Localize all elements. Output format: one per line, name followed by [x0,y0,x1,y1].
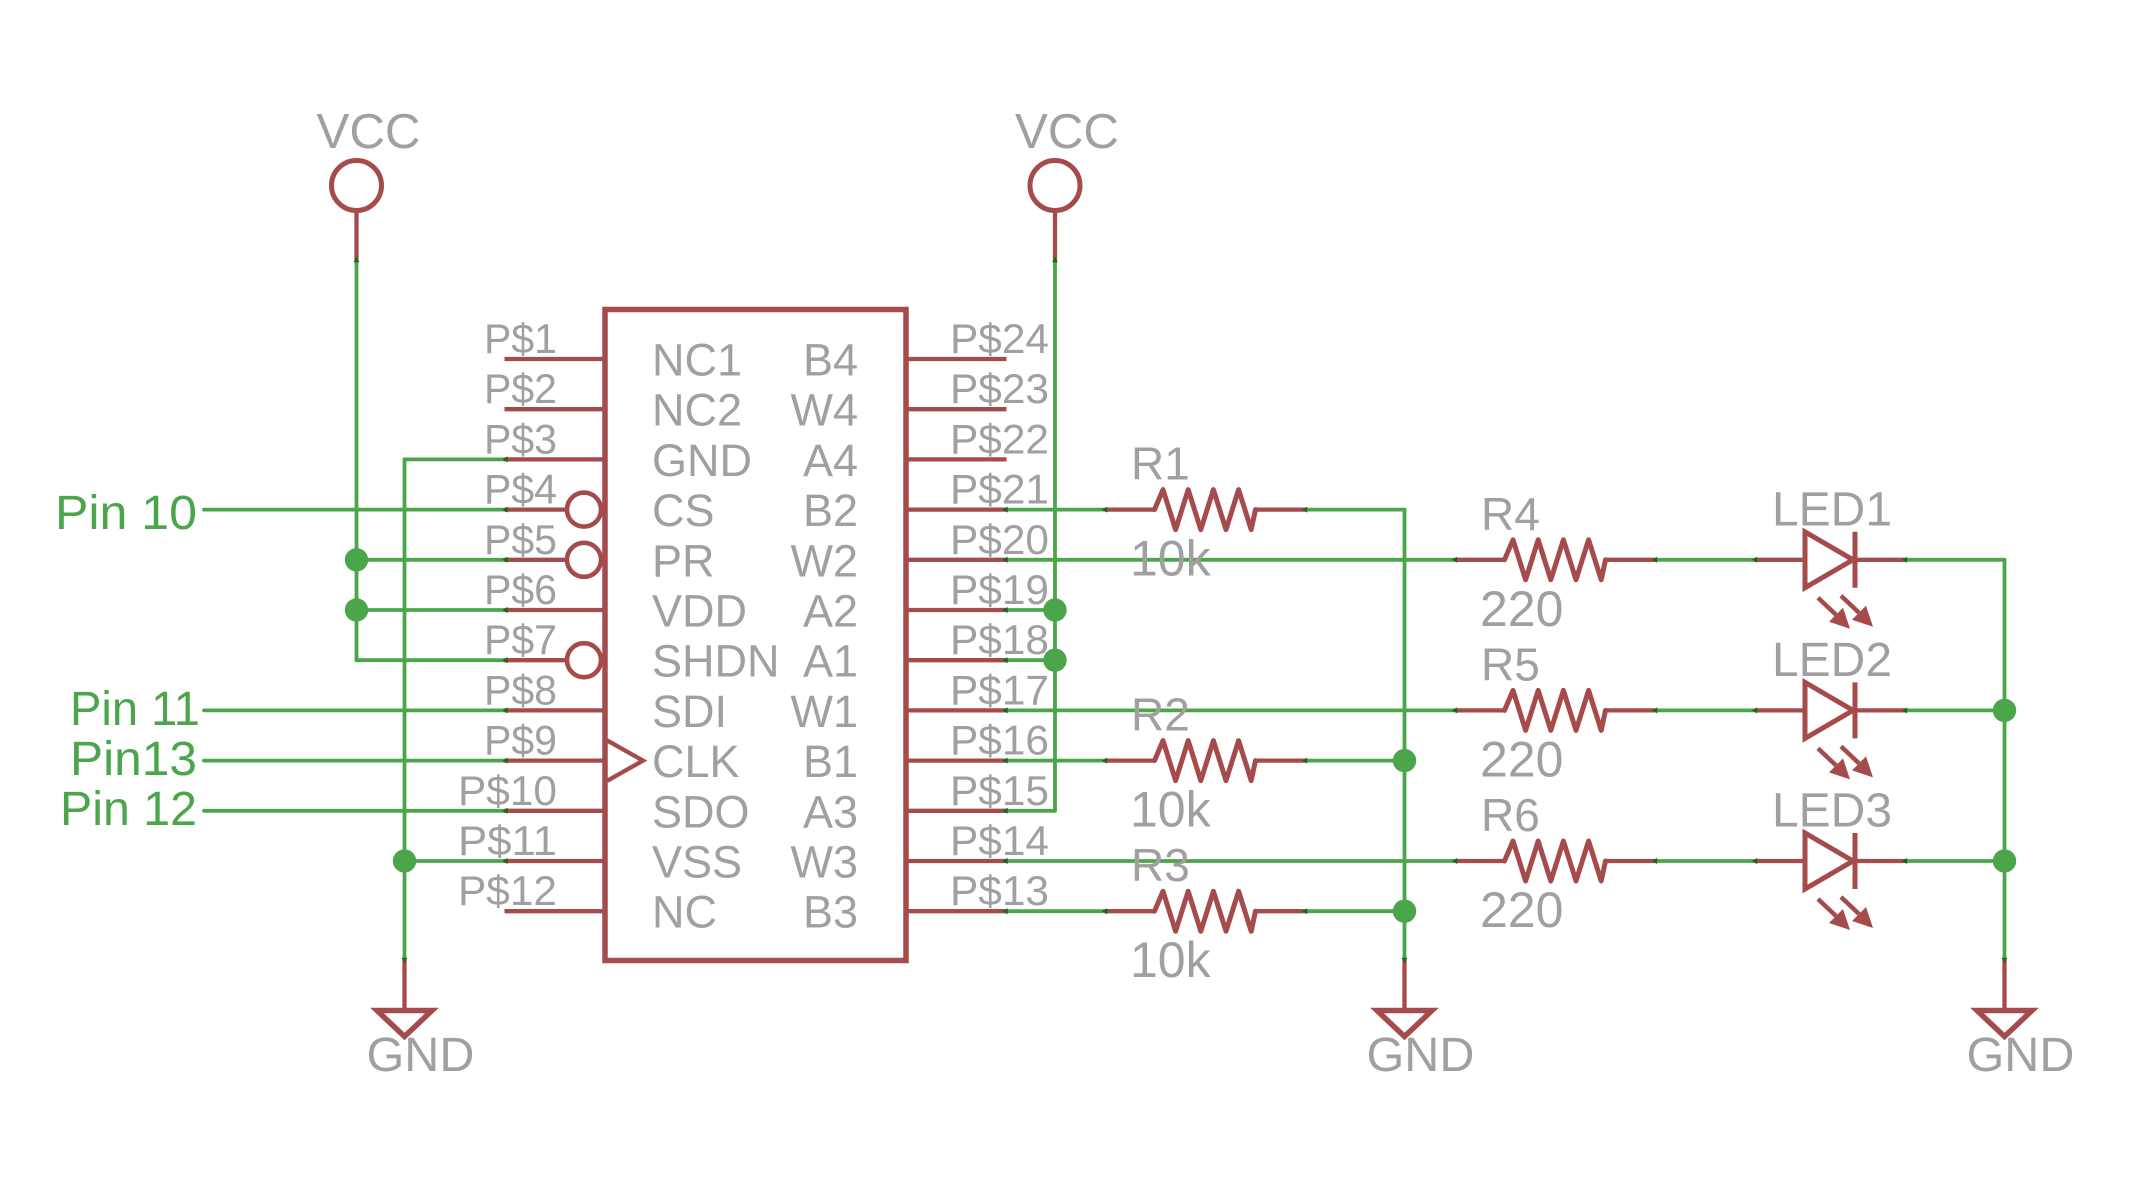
svg-text:Pin13: Pin13 [70,733,197,786]
svg-text:B4: B4 [803,335,858,386]
svg-text:GND: GND [367,1029,475,1082]
svg-text:SDI: SDI [652,686,727,737]
pin P$8 (SDI) with label [484,666,605,713]
svg-text:Pin 12: Pin 12 [60,783,197,836]
svg-text:220: 220 [1480,882,1563,938]
svg-text:P$3: P$3 [484,415,557,462]
junction right vertical at LED3 [1993,849,2016,872]
resistor R5 220 [1455,638,1655,787]
pin P$17 (W1) with label [906,666,1049,713]
junction on GND at VSS [393,849,416,872]
wire W1 to R5 [1007,709,1456,713]
pin P$5 (PR) with label [484,516,601,577]
svg-text:GND: GND [1367,1029,1475,1082]
pin P$21 (B2) with label [906,466,1049,513]
svg-text:P$19: P$19 [950,566,1049,613]
svg-text:LED2: LED2 [1772,634,1892,687]
svg-text:P$7: P$7 [484,616,557,663]
pin P$15 (A3) with label [906,767,1049,814]
svg-text:LED1: LED1 [1772,483,1892,536]
wire VCC left vertical [355,260,359,660]
svg-text:P$16: P$16 [950,717,1049,764]
svg-text:VCC: VCC [317,105,421,159]
svg-text:10k: 10k [1130,531,1212,587]
svg-text:P$5: P$5 [484,516,557,563]
svg-text:A1: A1 [803,636,858,687]
ground symbol GND (middle) [1367,960,1475,1082]
resistor R6 220 [1455,789,1655,938]
pin P$16 (B1) with label [906,717,1049,764]
junction on VCC at A2 [1043,598,1066,621]
junction on VCC at VDD [345,598,368,621]
wire GND mid vertical [1403,510,1407,960]
pin P$4 (CS) with label [484,466,601,527]
junction on VCC at PR [345,548,368,571]
svg-text:GND: GND [652,435,752,486]
pin P$18 (A1) with label [906,616,1049,663]
svg-text:LED3: LED3 [1772,785,1892,838]
svg-text:Pin 10: Pin 10 [55,487,197,540]
junction mid vertical at R3 [1393,900,1416,923]
svg-text:SHDN: SHDN [652,636,780,687]
resistor R1 10k [1105,438,1305,587]
svg-text:A3: A3 [803,786,858,837]
svg-text:10k: 10k [1130,932,1212,988]
svg-text:R1: R1 [1131,438,1190,490]
resistor R3 10k [1105,839,1305,988]
wire VCC to VDD pin [357,608,505,612]
pin P$14 (W3) with label [906,817,1049,864]
svg-text:B1: B1 [803,736,858,787]
pin P$24 (B4) with label [906,315,1049,362]
wire LED2 to right vertical [1905,709,2005,713]
wire GND left vertical [403,459,407,960]
pin P$7 (SHDN) with label [484,616,601,677]
svg-text:A2: A2 [803,586,858,637]
svg-text:B2: B2 [803,485,858,536]
IC U1 pin names [652,335,858,938]
net label Pin 12 [60,783,197,836]
svg-text:P$4: P$4 [484,466,557,513]
svg-text:R6: R6 [1481,789,1540,841]
wire VCC to A2 pin [1007,608,1056,612]
wire GND pin to left vertical [405,457,505,461]
svg-text:PR: PR [652,535,715,586]
svg-text:P$22: P$22 [950,415,1049,462]
svg-text:R5: R5 [1481,638,1540,690]
pin P$2 (NC2) with label [484,365,605,412]
IC U1 body (digital potentiometer) [605,310,906,961]
wire R4 to LED1 [1655,558,1755,562]
net label Pin 11 [70,683,200,736]
svg-text:W1: W1 [791,686,859,737]
power symbol VCC (left) [317,105,421,260]
svg-text:P$17: P$17 [950,666,1049,713]
diode LED2 [1755,634,1905,780]
wire R5 to LED2 [1655,709,1755,713]
wire R6 to LED3 [1655,859,1755,863]
wire R1 to mid vertical [1305,508,1405,512]
wire R3 to mid vertical [1305,909,1405,913]
pin P$19 (A2) with label [906,566,1049,613]
svg-text:CLK: CLK [652,736,740,787]
diode LED1 [1755,483,1905,629]
pin P$11 (VSS) with label [458,817,605,864]
net label Pin13 [70,733,197,786]
pin P$6 (VDD) with label [484,566,605,613]
wire VCC to PR pin [357,558,505,562]
wire B1 to R2 [1007,759,1106,763]
junction right vertical at LED2 [1993,699,2016,722]
svg-text:R2: R2 [1131,689,1190,741]
pin P$1 (NC1) with label [484,315,605,362]
svg-text:VDD: VDD [652,586,747,637]
svg-text:Pin 11: Pin 11 [70,683,200,736]
svg-text:W3: W3 [791,837,859,888]
svg-text:P$6: P$6 [484,566,557,613]
svg-text:P$21: P$21 [950,466,1049,513]
svg-text:220: 220 [1480,581,1563,637]
ground symbol GND (left) [367,960,475,1082]
pin P$23 (W4) with label [906,365,1049,412]
svg-text:P$13: P$13 [950,867,1049,914]
svg-text:P$20: P$20 [950,516,1049,563]
svg-text:GND: GND [1967,1029,2075,1082]
svg-text:NC2: NC2 [652,385,742,436]
pin connection markers [354,257,2008,964]
svg-text:P$2: P$2 [484,365,557,412]
svg-text:W4: W4 [791,385,859,436]
junction mid vertical at R2 [1393,749,1416,772]
svg-text:P$10: P$10 [458,767,557,814]
svg-text:10k: 10k [1130,782,1212,838]
wire LED1 to right vertical [1905,558,2005,562]
pin P$10 (SDO) with label [458,767,605,814]
svg-text:P$15: P$15 [950,767,1049,814]
wire Pin 12 to SDO [204,809,505,813]
svg-text:W2: W2 [791,535,859,586]
pin P$12 (NC) with label [458,867,605,914]
svg-text:NC: NC [652,887,717,938]
svg-text:VSS: VSS [652,837,742,888]
diode LED3 [1755,785,1905,931]
svg-text:B3: B3 [803,887,858,938]
net label Pin 10 [55,487,197,540]
svg-text:P$8: P$8 [484,666,557,713]
svg-text:VCC: VCC [1015,105,1119,159]
svg-text:P$18: P$18 [950,616,1049,663]
svg-text:P$12: P$12 [458,867,557,914]
wire VCC to SHDN pin [357,658,505,662]
wire VCC to A1 pin [1007,658,1056,662]
svg-text:P$23: P$23 [950,365,1049,412]
resistor R2 10k [1105,689,1305,838]
svg-text:P$9: P$9 [484,717,557,764]
svg-text:NC1: NC1 [652,335,742,386]
power symbol VCC (right) [1015,105,1119,260]
svg-text:SDO: SDO [652,786,750,837]
wire VCC to A3 pin [1007,809,1056,813]
ground symbol GND (right) [1967,960,2075,1082]
pin P$13 (B3) with label [906,867,1049,914]
wire Pin13 to CLK [204,759,505,763]
wire R2 to mid vertical [1305,759,1405,763]
svg-text:A4: A4 [803,435,858,486]
wire VSS to GND vertical [405,859,505,863]
junction on VCC at A1 [1043,649,1066,672]
wire W2 to R4 [1007,558,1456,562]
pin P$9 (CLK) with label [484,717,643,781]
pin P$3 (GND) with label [484,415,605,462]
wire Pin 11 to SDI [204,709,505,713]
wire B3 to R3 [1007,909,1106,913]
wire B2 to R1 [1007,508,1106,512]
pin P$20 (W2) with label [906,516,1049,563]
wire VCC right vertical [1053,260,1057,811]
wire Pin 10 to CS [204,508,505,512]
resistor R4 220 [1455,488,1655,637]
svg-text:R4: R4 [1481,488,1540,540]
wire GND right vertical [2003,560,2007,960]
svg-text:P$24: P$24 [950,315,1049,362]
svg-text:P$14: P$14 [950,817,1049,864]
svg-text:P$1: P$1 [484,315,557,362]
svg-text:R3: R3 [1131,839,1190,891]
svg-text:CS: CS [652,485,715,536]
wire W3 to R6 [1007,859,1456,863]
svg-text:220: 220 [1480,731,1563,787]
svg-text:P$11: P$11 [458,817,557,864]
wire LED3 to right vertical [1905,859,2005,863]
pin P$22 (A4) with label [906,415,1049,462]
